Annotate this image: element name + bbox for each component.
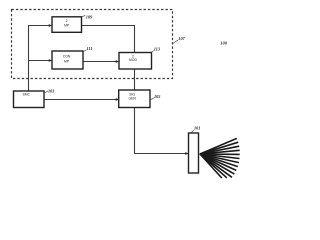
svg-text:100: 100 <box>220 40 227 45</box>
svg-text:101: 101 <box>194 126 200 131</box>
svg-text:GEN: GEN <box>129 97 137 101</box>
svg-text:MP: MP <box>64 59 70 63</box>
svg-text:111: 111 <box>87 46 93 51</box>
svg-text:107: 107 <box>178 36 185 41</box>
svg-text:MOD: MOD <box>129 58 137 62</box>
svg-text:103: 103 <box>48 88 55 93</box>
svg-text:CON: CON <box>63 54 71 58</box>
svg-text:105: 105 <box>154 94 161 99</box>
svg-text:SMC: SMC <box>23 93 31 97</box>
svg-text:MP: MP <box>64 24 70 28</box>
svg-text:113: 113 <box>154 46 161 51</box>
svg-text:2: 2 <box>66 19 68 23</box>
svg-text:109: 109 <box>86 14 93 19</box>
